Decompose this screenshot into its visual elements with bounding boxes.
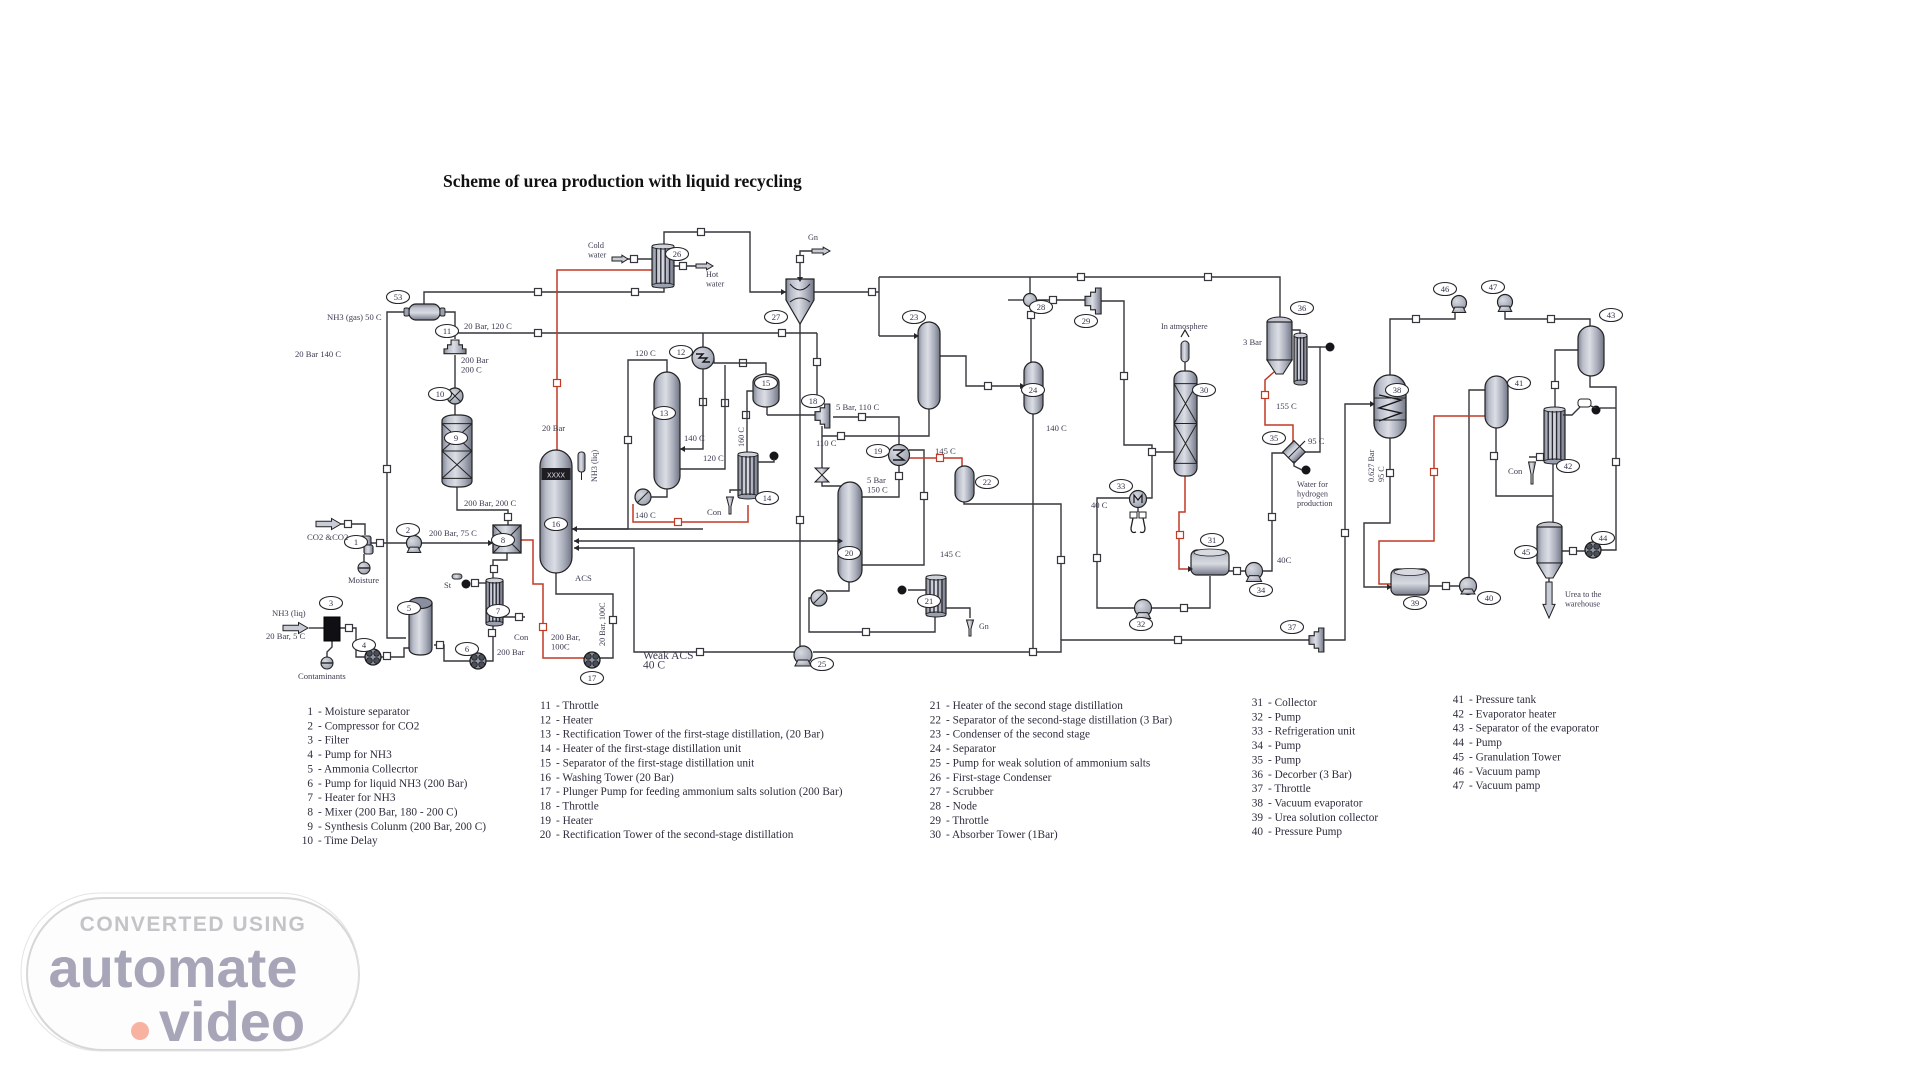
arrowhead into collector39 [1387,584,1392,590]
filter 3 [324,617,340,641]
svg-text:43: 43 [1453,723,1465,735]
junction 23 [1030,649,1037,656]
time delay 10 [447,388,463,404]
label Gn 21 [979,622,989,631]
svg-text:- Absorber Tower (1Bar): - Absorber Tower (1Bar) [946,829,1058,841]
decorber 36 [1267,317,1292,374]
wire heater7 to mixer8 [493,553,507,579]
junction 66 [1431,469,1438,476]
red pipe decorber36 to hx35 [1265,372,1293,444]
junction 57 [1570,548,1577,555]
svg-text:21: 21 [930,700,941,712]
svg-text:43: 43 [1607,310,1616,320]
wire node28 to throttle29 [1036,299,1085,301]
svg-text:- Rectification Tower of the: - Rectification Tower of the second-stag… [556,829,794,841]
label 40 C [1091,500,1108,510]
wire washtower16 mid line to tower20 [574,540,843,542]
svg-text:18: 18 [809,396,818,406]
svg-text:- Collector: - Collector [1268,697,1317,709]
svg-text:14: 14 [763,493,772,503]
callout 32 [1130,618,1153,631]
svg-text:20: 20 [845,548,854,558]
NH3 feed arrow [283,623,308,634]
ammonia collector 5 [409,598,432,656]
svg-text:37: 37 [1288,622,1297,632]
svg-text:15: 15 [762,378,771,388]
evaporator separator 43 [1578,326,1604,376]
wire sep15 bottom branch [766,406,768,415]
junction 10 [869,289,876,296]
wire hot water outlet [674,265,696,267]
wire tower45 down [1548,578,1550,582]
svg-text:33: 33 [1117,481,1126,491]
red pipe mixer8 to pump17 [521,540,586,658]
wire column13 bottom [651,489,667,497]
svg-text:39: 39 [1411,598,1420,608]
svg-text:water: water [588,251,606,260]
svg-text:200 C: 200 C [461,365,482,375]
junction 11 [535,330,542,337]
wire node28 up [1029,277,1031,294]
svg-text:34: 34 [1252,740,1264,752]
heater 14 [738,452,758,499]
svg-text:120 C: 120 C [635,348,656,358]
label 120 C [635,348,656,358]
wire heater14 valve [758,459,774,462]
wire fridge33 legs [1137,508,1139,512]
label 140 C [684,433,705,443]
label Water for [1297,480,1332,508]
arrowhead into sep24 [1020,383,1025,389]
arrowhead into tower20 [838,538,843,544]
svg-text:120 C: 120 C [703,453,724,463]
junction 48 [1342,530,1349,537]
svg-text:27: 27 [772,312,781,322]
svg-text:ACS: ACS [575,573,592,583]
wire heater12 bottom to column13 [680,369,703,449]
label St [444,580,452,590]
heater 21 [926,575,946,617]
junction 31 [896,473,903,480]
hx 35 [1283,441,1306,464]
compressor 2 [407,536,422,553]
svg-text:46: 46 [1441,284,1450,294]
svg-text:27: 27 [930,786,942,798]
svg-text:29: 29 [930,815,942,827]
svg-text:200 Bar,: 200 Bar, [551,632,580,642]
callout 14 [756,492,779,505]
label 5 Bar, 110 C [836,402,880,412]
svg-text:- Pump for liquid NH3 (200 Ba: - Pump for liquid NH3 (200 Bar) [318,778,468,790]
legend column 4 [1252,697,1379,838]
junction 8 [680,263,687,270]
junction 42 [1121,373,1128,380]
svg-text:- Separator of the first-stag: - Separator of the first-stage distillat… [556,757,755,769]
svg-text:24: 24 [930,743,942,755]
svg-text:45: 45 [1453,751,1465,763]
collector 39 [1391,569,1429,596]
wire con drain 42 [1529,456,1552,458]
svg-text:31: 31 [1252,697,1263,709]
junction 53 [1613,459,1620,466]
svg-text:- Pressure Pump: - Pressure Pump [1268,826,1342,838]
svg-text:- Separator of the second-sta: - Separator of the second-stage distilla… [946,714,1172,726]
wire return to column13 120C [680,365,725,469]
svg-text:0.627 Bar: 0.627 Bar [1367,449,1376,482]
svg-text:29: 29 [1082,316,1091,326]
svg-text:25: 25 [818,659,827,669]
label Weak ACS [643,650,694,672]
valve 20top [815,468,829,482]
svg-text:23: 23 [930,729,942,741]
wire node28 left stub [1008,299,1024,301]
label Con [707,507,722,517]
svg-text:- Separator: - Separator [946,743,996,755]
separator 22 [955,466,974,502]
wire sep43 side to evapheater42 [1555,350,1578,408]
svg-text:Urea to the: Urea to the [1565,590,1602,599]
wire decorber ball stub [1320,346,1326,348]
svg-text:5: 5 [307,763,313,775]
svg-text:12: 12 [540,714,552,726]
label 40C [1277,555,1292,565]
svg-text:3: 3 [307,735,313,747]
wire column13 loop to washtower16 [572,360,667,529]
red pipe tank41 to collector39 [1379,416,1486,584]
moisture separator 1 [360,536,373,554]
wire throttle11 to timedelay10 [454,355,456,390]
svg-text:- Moisture separator: - Moisture separator [318,706,410,718]
wire heater12 to sep15 [714,358,766,374]
vacuum pump 46 [1452,296,1467,313]
svg-text:20: 20 [540,829,552,841]
callout 2 [397,524,420,537]
wire riser to header277 [878,277,880,336]
label In atmosphere [1161,322,1208,331]
watermark converted using [80,913,307,936]
svg-text:- Heater of the first-stage d: - Heater of the first-stage distillation… [556,743,742,755]
svg-text:200 Bar: 200 Bar [461,355,489,365]
wire NH3 feed to filter3 [309,627,324,629]
wire sep1 drain [363,554,365,562]
arrowhead into tower16 c [574,545,579,551]
wire evap38 bottom to collector39 [1364,438,1392,587]
svg-text:- Scrubber: - Scrubber [946,786,994,798]
junction 47 [625,437,632,444]
callout 45 [1515,546,1538,559]
svg-text:37: 37 [1252,783,1264,795]
svg-text:140 C: 140 C [1046,423,1067,433]
junction 4 [797,256,804,263]
svg-text:32: 32 [1252,711,1264,723]
label 20 Bar 140 C [295,349,341,359]
svg-text:12: 12 [677,347,686,357]
svg-text:140 C: 140 C [684,433,705,443]
legend column 2 [540,700,843,841]
red pipe heater19 to sep22 [909,458,962,468]
wire sep24 downcomer [1032,413,1034,652]
wire evap38 top to pump46 [1390,312,1455,375]
svg-text:10: 10 [302,835,314,847]
svg-text:Gn: Gn [979,622,989,631]
warehouse arrow [1543,582,1555,618]
contaminants drain pot [321,657,333,669]
pressure pump 40 [1460,578,1477,595]
red pipe reboiler13 to heater14 [633,504,748,522]
junction 63 [675,519,682,526]
svg-text:34: 34 [1257,585,1266,595]
svg-text:Water for: Water for [1297,480,1328,489]
callout 3 [320,597,343,610]
callout 42 [1557,460,1580,473]
wire weakACS run right [813,640,1309,652]
wire scrubber27 to right [814,291,879,293]
svg-text:3: 3 [329,598,333,608]
label 160C vertical [737,427,746,447]
red pipe washtower16 to condenser26 [557,270,652,450]
svg-text:- Pump for NH3: - Pump for NH3 [318,749,392,761]
svg-text:160 C: 160 C [737,427,746,447]
svg-text:- Pump: - Pump [1268,711,1301,723]
callout 25 [811,658,834,671]
svg-text:- Vacuum evaporator: - Vacuum evaporator [1268,797,1363,809]
vacuum evaporator 38 [1374,375,1406,438]
wire throttle18 out to heater19 [833,417,899,445]
svg-text:53: 53 [394,292,403,302]
callout 44 [1592,532,1615,545]
junction 30 [921,493,928,500]
callout 19 [867,445,890,458]
wire drum5a top to condenser26 bottom [424,286,664,304]
node 28 [1024,294,1037,307]
svg-text:13: 13 [660,408,669,418]
junction 45 [722,400,729,407]
svg-text:Scheme of urea production with: Scheme of urea production with liquid re… [443,171,802,191]
callout 37 [1281,621,1304,634]
svg-text:Con: Con [707,507,722,517]
arrowhead into column13 [680,446,685,452]
wire tower45 to pump44 [1562,550,1586,552]
ammonia drum top [404,304,445,320]
label NH3 (gas) 50 C [327,312,382,322]
junction 38 [1181,605,1188,612]
svg-text:- Throttle: - Throttle [946,815,989,827]
svg-text:- Plunger Pump for feeding am: - Plunger Pump for feeding ammonium salt… [556,786,843,798]
wire absorber30 vent [1184,362,1186,371]
svg-text:22: 22 [930,714,942,726]
vacuum pump 47 [1498,295,1513,312]
label 200 Bar [497,647,525,657]
arrowhead into tower16 a [572,526,577,532]
svg-text:Contaminants: Contaminants [298,671,346,681]
svg-text:19: 19 [874,446,883,456]
junction 54 [1443,583,1450,590]
svg-text:6: 6 [307,778,313,790]
svg-text:XXXX: XXXX [547,473,566,481]
heater 12 [692,347,714,369]
collector 31 [1191,549,1229,575]
wire pump34 riser to hx35 [1262,453,1286,571]
wire filter3 to pump4 [340,628,366,657]
wire header 20bar120C [455,332,817,334]
wire pump2 to mixer8 [422,542,493,544]
svg-text:155 C: 155 C [1276,401,1297,411]
junction 17 [491,566,498,573]
junction 34 [1205,274,1212,281]
svg-text:19: 19 [540,815,552,827]
junction 16 [489,630,496,637]
svg-text:- Pump: - Pump [1469,737,1502,749]
callout 16 [545,518,568,531]
junction 49 [1387,470,1394,477]
pump 44 [1585,542,1601,558]
svg-text:- Vacuum pamp: - Vacuum pamp [1469,766,1541,778]
arrowhead into scrubber27 [781,289,786,295]
decorber valve ball [1326,343,1335,352]
wire scrubber27 downcomer [799,324,801,646]
svg-text:1: 1 [354,537,358,547]
svg-text:NH3 (liq): NH3 (liq) [590,450,599,482]
svg-text:NH3 (gas) 50 C: NH3 (gas) 50 C [327,312,382,322]
nh3liq dropper [578,452,585,480]
svg-text:26: 26 [673,249,682,259]
throttle 18 [815,404,830,428]
callout 28 [1030,301,1053,314]
separator 24 [1024,362,1043,414]
hx35 drain ball [1302,466,1311,475]
callout 36 [1291,302,1314,315]
junction 40 [1269,514,1276,521]
hot water arrow [696,262,713,270]
junction 46 [740,360,747,367]
junction 24 [1175,637,1182,644]
pump 25 [794,646,812,666]
CO2 feed arrow [316,519,341,530]
label NH3 (liq) [272,608,306,618]
legend column 3 [930,700,1173,841]
svg-text:- First-stage Condenser: - First-stage Condenser [946,772,1052,784]
junction 7 [345,521,352,528]
wire fridge33 left loop to pump32 [1097,498,1135,608]
arrowhead into tower16 b [574,538,579,544]
label 95 C [1308,436,1325,446]
junction 41 [1028,312,1035,319]
watermark dot [131,1022,149,1040]
svg-text:Hot: Hot [706,270,719,279]
junction 19 [346,625,353,632]
wire collector5 to pump6 [434,645,470,661]
throttle 11 [444,340,466,354]
callout 53 [387,291,410,304]
svg-text:110 C: 110 C [816,438,837,448]
junction 35 [1050,297,1057,304]
svg-text:30: 30 [930,829,942,841]
svg-text:10: 10 [436,389,445,399]
wire tower20 bottom to hx [826,582,849,591]
label Moisture [348,575,379,585]
svg-text:- Refrigeration unit: - Refrigeration unit [1268,726,1356,738]
svg-text:42: 42 [1453,708,1465,720]
svg-text:5 Bar: 5 Bar [867,475,886,485]
wire heater19 black out to tower20 [862,450,924,565]
junction 62 [937,455,944,462]
svg-text:- Node: - Node [946,800,977,812]
junction 65 [1177,532,1184,539]
svg-text:40: 40 [1252,826,1264,838]
con funnel 14 [727,497,734,514]
wire condenser23 right to sep24 [939,356,1025,386]
label Cold [588,241,606,260]
label 140 C [1046,423,1067,433]
svg-text:2: 2 [307,720,313,732]
tower20 hx [811,590,827,606]
wire node28 down to sep24 [1030,306,1032,362]
junction 33 [1078,274,1085,281]
callout 40 [1478,592,1501,605]
svg-text:9: 9 [454,433,458,443]
callout 23 [903,311,926,324]
junction 25 [1058,557,1065,564]
svg-text:14: 14 [540,743,552,755]
watermark automate [49,936,298,999]
wire branch to absorber30 [1152,451,1175,453]
absorber tower 30 [1174,371,1197,476]
pump 34 [1246,563,1263,582]
title text [443,171,802,191]
svg-text:33: 33 [1252,726,1264,738]
svg-text:16: 16 [552,519,561,529]
callout 6 [456,643,479,656]
svg-text:100C: 100C [551,642,570,652]
callout 15 [755,377,778,390]
svg-text:23: 23 [910,312,919,322]
svg-text:9: 9 [307,821,313,833]
callout 9 [445,432,468,445]
svg-text:5: 5 [407,603,411,613]
svg-text:- Synthesis Colunm (200 Bar,: - Synthesis Colunm (200 Bar, 200 C) [318,821,486,833]
con funnel 42 [1529,462,1536,484]
junction 58 [863,629,870,636]
washing tower 16 [540,450,572,573]
label 110 C [816,438,837,448]
wire cold water feed [620,258,653,260]
heater14 valve ball [770,452,779,461]
callout 21 [918,595,941,608]
svg-text:- Pump: - Pump [1268,740,1301,752]
callout 31 [1201,534,1224,547]
wire tank41 bottom loop [1496,428,1553,496]
svg-text:- Separator of the evaporator: - Separator of the evaporator [1469,723,1599,735]
throttle 37 [1309,628,1324,652]
svg-text:- Washing Tower (20 Bar): - Washing Tower (20 Bar) [556,772,674,784]
evaporator heater 42 [1544,407,1565,464]
svg-text:38: 38 [1252,797,1264,809]
wire heater21 feed valve [908,589,929,591]
label NH3liq vertical [590,450,599,482]
svg-text:150 C: 150 C [867,485,888,495]
svg-text:- Heater: - Heater [556,815,593,827]
svg-text:CO2 &CO2: CO2 &CO2 [307,532,348,542]
svg-text:40 C: 40 C [643,660,665,672]
wire throttle37 to evap38 [1323,404,1375,640]
svg-text:- Throttle: - Throttle [556,700,599,712]
wire throttle29 down to fridge33 [1100,301,1152,498]
svg-text:24: 24 [1029,385,1038,395]
wire pump47 to sep43 [1505,310,1590,326]
red pipe absorber30 to collector31 [1179,476,1193,569]
plunger pump 17 [584,652,600,668]
label 140 C [635,510,656,520]
